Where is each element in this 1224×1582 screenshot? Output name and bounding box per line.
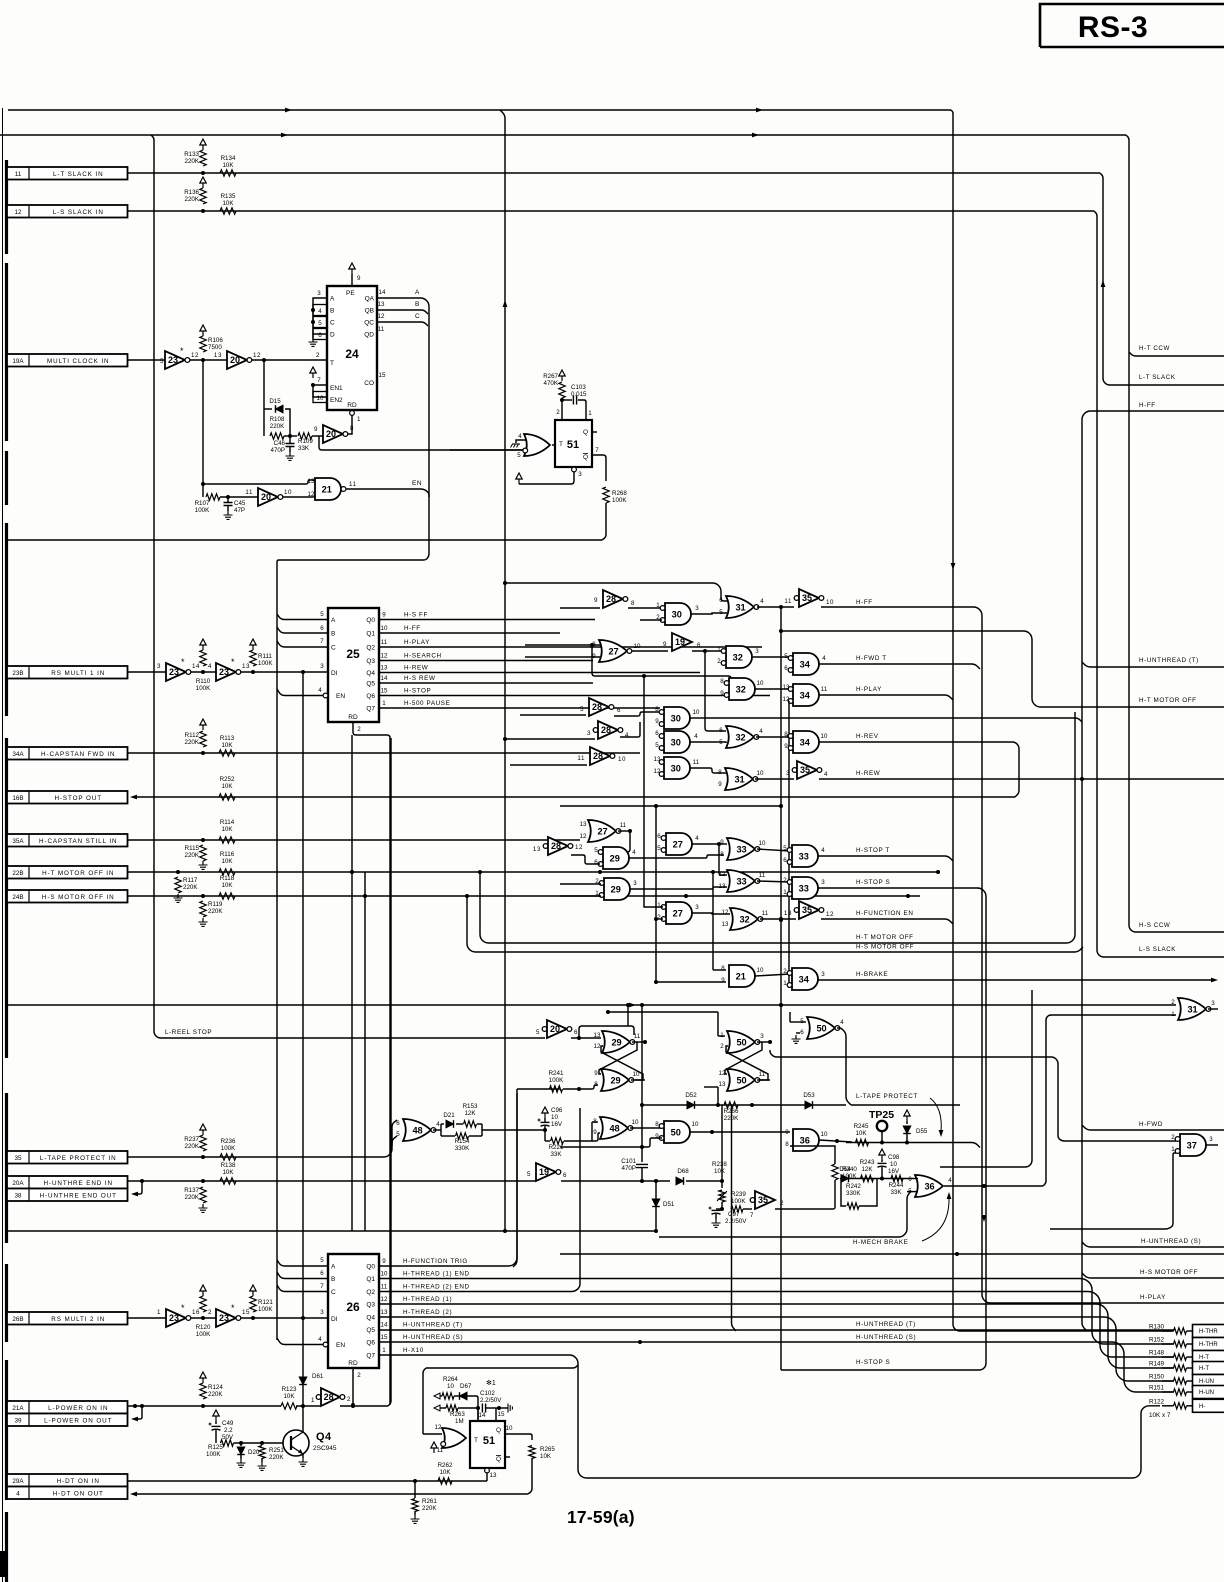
svg-text:R117: R117 (183, 877, 198, 884)
IC25 input curves from bus (277, 564, 328, 1340)
svg-text:H-T: H-T (1199, 1355, 1209, 1361)
svg-text:H-SEARCH: H-SEARCH (404, 653, 442, 660)
label R113 10K (220, 735, 235, 749)
resistor R109 (298, 433, 319, 439)
FF51b pin14 (478, 1408, 486, 1421)
sheet number 17-59(a) (567, 1507, 635, 1527)
bank box R148 (1193, 1351, 1224, 1364)
IC25 output H-REW (379, 665, 700, 673)
bank resistor R130 (1149, 1324, 1193, 1335)
inverter 23b (208, 657, 250, 681)
wire 35d out (775, 1188, 835, 1209)
svg-text:4: 4 (318, 1336, 322, 1343)
resistor R240 (790, 1146, 838, 1188)
curve arrow L-TAPE (930, 1098, 943, 1137)
wire 30a in2 (640, 619, 662, 621)
inverter 20c (536, 1020, 578, 1038)
svg-text:H-UN: H-UN (1199, 1390, 1214, 1396)
svg-text:11: 11 (381, 1284, 388, 1291)
svg-text:4: 4 (208, 663, 212, 670)
label R119 220K (208, 901, 223, 915)
label R123 10K (282, 1386, 297, 1400)
svg-text:14: 14 (379, 289, 386, 296)
svg-text:7500: 7500 (208, 344, 222, 351)
resistor R119 (199, 901, 208, 926)
svg-text:H-FF: H-FF (404, 625, 421, 632)
wire H-FWD T out (819, 655, 980, 669)
connector pin 22B H-T MOTOR OFF IN (7, 866, 128, 879)
IC26 pin label 14 (381, 1322, 463, 1329)
wire H-REV out (819, 733, 1019, 797)
label R242 330K (846, 1183, 861, 1197)
wire 20c out to 21 (283, 492, 315, 497)
wire L-TAPE PROTECT IN (128, 1136, 398, 1159)
wire 36b out (944, 1177, 1043, 1188)
connector pin 26B RS MULTI 2 IN (7, 1312, 128, 1325)
transistor Q4 (283, 1406, 309, 1466)
svg-text:3: 3 (1211, 1000, 1215, 1007)
svg-text:Q7: Q7 (366, 1353, 375, 1360)
svg-text:✻1: ✻1 (486, 1379, 496, 1387)
margin bar segment (5, 523, 8, 716)
svg-text:R106: R106 (208, 337, 223, 344)
svg-text:100K: 100K (196, 685, 211, 692)
inverter 20 (RD driver) (314, 425, 354, 443)
NAND 30b (655, 706, 690, 729)
svg-text:Q0: Q0 (366, 617, 375, 624)
wire EN from 21 (341, 480, 429, 497)
svg-text:220K: 220K (185, 196, 200, 203)
FF51b Q out (505, 1425, 532, 1440)
svg-text:H-UNTHREAD (T): H-UNTHREAD (T) (1139, 657, 1199, 664)
C101 plates (636, 1164, 648, 1183)
connector pin 39 L-POWER ON OUT (7, 1414, 128, 1427)
resistor R116 (219, 869, 235, 875)
label R120 100K (196, 1324, 211, 1338)
svg-text:4: 4 (436, 1121, 440, 1128)
svg-text:*: * (181, 1303, 185, 1313)
svg-text:12: 12 (719, 871, 726, 878)
svg-text:5: 5 (594, 847, 598, 854)
IC25 output H-500 PAUSE (379, 700, 660, 708)
svg-text:8: 8 (721, 965, 725, 972)
svg-text:H-S REW: H-S REW (404, 675, 435, 682)
resistor R120 (200, 1285, 206, 1312)
svg-text:R114: R114 (220, 819, 235, 826)
svg-text:R149: R149 (1149, 1361, 1165, 1368)
svg-text:31: 31 (735, 602, 745, 612)
svg-text:2: 2 (657, 914, 661, 921)
svg-text:220K: 220K (208, 1391, 223, 1398)
svg-text:EN1: EN1 (330, 385, 343, 392)
svg-text:6: 6 (655, 730, 659, 737)
IC24 QA wire A (277, 289, 429, 564)
svg-text:H-THREAD (2): H-THREAD (2) (403, 1309, 452, 1316)
svg-text:11: 11 (634, 1033, 641, 1040)
svg-text:R237: R237 (184, 1136, 199, 1143)
svg-text:5: 5 (783, 845, 787, 852)
NOR 50b (720, 1031, 760, 1053)
svg-text:R238: R238 (712, 1161, 727, 1168)
wire 29a out (629, 849, 724, 858)
NOR 29c (594, 1031, 635, 1053)
connector pin 19A MULTI CLOCK IN (7, 354, 128, 367)
svg-text:12: 12 (381, 653, 388, 660)
label R133 220K (184, 151, 200, 165)
svg-text:R107: R107 (195, 500, 210, 507)
svg-text:R116: R116 (220, 851, 235, 858)
label R245 10K (854, 1123, 869, 1137)
wire 28b out (614, 712, 662, 716)
IC24 pin14 label (378, 289, 386, 379)
resistor R112 (200, 719, 206, 747)
svg-text:EN2: EN2 (330, 397, 343, 404)
margin bar segment (5, 1512, 8, 1582)
wire 37 in1 (1050, 1153, 1176, 1229)
svg-text:11: 11 (759, 872, 766, 879)
svg-text:H-T: H-T (1199, 1366, 1209, 1372)
svg-text:5: 5 (719, 739, 723, 746)
svg-text:EN: EN (336, 1342, 345, 1349)
IC24 QC wire C (377, 313, 428, 326)
svg-text:9: 9 (357, 275, 361, 282)
svg-text:4: 4 (625, 732, 629, 739)
IC25 EN bubble (318, 687, 328, 698)
margin bar segment (5, 451, 8, 505)
svg-text:R123: R123 (282, 1386, 297, 1393)
svg-text:3: 3 (587, 730, 591, 737)
wire R123 to 28f (296, 1404, 320, 1408)
resistor R221 (545, 1133, 600, 1144)
svg-text:DI: DI (331, 1316, 338, 1323)
svg-text:2: 2 (556, 409, 560, 416)
resistor R263 (440, 1405, 480, 1411)
svg-text:D68: D68 (677, 1168, 689, 1175)
wire L-T SLACK IN (128, 171, 1101, 175)
svg-text:33: 33 (799, 883, 809, 893)
svg-text:B: B (415, 301, 420, 308)
svg-text:C46: C46 (274, 440, 286, 447)
svg-text:3: 3 (633, 880, 637, 887)
svg-text:32: 32 (735, 732, 745, 742)
FF51b pin15 (496, 1408, 505, 1421)
svg-text:H-CAPSTAN STILL IN: H-CAPSTAN STILL IN (39, 838, 117, 845)
svg-text:9: 9 (784, 743, 788, 750)
svg-text:11: 11 (784, 598, 792, 605)
wire 37 out (1206, 1136, 1218, 1145)
NOR 33a (720, 838, 760, 860)
wire latch feedback 29 (579, 1026, 634, 1038)
IC 26 decoder (328, 1254, 379, 1368)
resistor R106 (200, 325, 206, 352)
label H-BRAKE (856, 971, 888, 978)
svg-text:8: 8 (720, 678, 724, 685)
svg-text:Q7: Q7 (366, 706, 375, 713)
connector pin 16B H-STOP OUT (7, 791, 128, 804)
wire H-S MOTOR OFF line (465, 894, 1083, 952)
svg-text:5: 5 (527, 1171, 531, 1178)
IC26 pin label 13 (381, 1309, 453, 1316)
svg-text:38: 38 (14, 1193, 22, 1200)
svg-text:Q6: Q6 (366, 1340, 375, 1347)
NOR 48a (396, 1119, 436, 1141)
svg-text:10K: 10K (222, 200, 234, 207)
IC26 Q2 line (379, 1108, 580, 1292)
svg-text:Q: Q (583, 454, 588, 461)
svg-text:R110: R110 (196, 678, 211, 685)
wire 50d out (837, 1019, 851, 1105)
svg-text:D: D (330, 332, 335, 339)
inverter 23c (157, 1303, 200, 1327)
svg-text:5: 5 (784, 653, 788, 660)
wire x365 vertical (364, 872, 366, 1231)
svg-text:12: 12 (381, 1296, 388, 1303)
label H-PLAY (856, 686, 882, 693)
svg-text:10: 10 (759, 840, 766, 847)
svg-text:31: 31 (1187, 1004, 1197, 1014)
svg-text:220K: 220K (270, 423, 285, 430)
wire R241 left (550, 1088, 560, 1090)
svg-text:R262: R262 (438, 1462, 453, 1469)
svg-text:T: T (474, 1437, 478, 1444)
svg-text:12: 12 (654, 768, 661, 775)
svg-text:R138: R138 (221, 1162, 236, 1169)
bank resistor R151 (1149, 1385, 1193, 1396)
label H-PLAY rail (1140, 1294, 1166, 1301)
svg-text:4: 4 (759, 728, 763, 735)
svg-text:Q3: Q3 (366, 658, 375, 665)
svg-text:L-S SLACK IN: L-S SLACK IN (53, 209, 104, 216)
svg-text:R265: R265 (540, 1446, 555, 1453)
svg-text:11: 11 (381, 639, 388, 646)
svg-text:H-FWD T: H-FWD T (856, 655, 887, 662)
svg-text:7: 7 (750, 1212, 754, 1219)
svg-text:10: 10 (632, 1119, 639, 1126)
wire 50d in5 (790, 1012, 806, 1022)
svg-text:50: 50 (736, 1037, 746, 1047)
resistor R111 (250, 639, 256, 666)
svg-text:10K x 7: 10K x 7 (1149, 1412, 1171, 1419)
svg-text:10: 10 (284, 489, 292, 496)
resistor R113 (219, 750, 235, 756)
svg-text:Q2: Q2 (366, 1289, 375, 1296)
svg-text:10: 10 (692, 1121, 699, 1128)
svg-text:2: 2 (717, 658, 721, 665)
diode D61 (299, 1318, 324, 1406)
svg-text:H-THR: H-THR (1199, 1329, 1218, 1335)
svg-text:RD: RD (348, 714, 358, 721)
svg-text:H-DT ON IN: H-DT ON IN (57, 1478, 100, 1485)
NOR 27b (580, 820, 621, 842)
svg-text:25: 25 (346, 647, 360, 661)
svg-text:RD: RD (347, 402, 357, 409)
margin bar segment (5, 1264, 8, 1342)
svg-text:Q4: Q4 (366, 1315, 375, 1322)
svg-text:29: 29 (610, 853, 620, 863)
label R109 33K (298, 438, 313, 452)
svg-text:220K: 220K (185, 1194, 200, 1201)
svg-text:R113: R113 (220, 735, 235, 742)
svg-text:C101: C101 (621, 1158, 636, 1165)
label R265 10K (540, 1446, 555, 1460)
svg-text:PE: PE (346, 290, 355, 297)
wire 29ab inputs (560, 884, 601, 896)
wire 28e to 29a (571, 855, 600, 864)
resistor R264 (440, 1393, 454, 1399)
wire branch x154 from rail2 (151, 135, 168, 1038)
wire branch x505 from rail1 (500, 110, 507, 1233)
svg-text:1: 1 (783, 889, 787, 896)
bank box R150 (1193, 1375, 1224, 1388)
label star1 (486, 1379, 496, 1387)
label R121 100K (258, 1299, 273, 1313)
IC25 output H-STOP (379, 688, 770, 696)
svg-text:9: 9 (721, 977, 725, 984)
wire to C96 node (482, 1128, 547, 1132)
svg-text:2: 2 (316, 352, 320, 359)
inverter 28e (533, 837, 583, 855)
label R238 10K (712, 1161, 727, 1175)
svg-text:13: 13 (308, 478, 315, 485)
diode D53 (803, 1092, 815, 1109)
wire 23a-23b (191, 670, 216, 674)
wire 38 loop (131, 1181, 142, 1196)
inverter 28f (311, 1388, 351, 1406)
svg-text:0.015: 0.015 (571, 391, 587, 398)
svg-text:2.2: 2.2 (224, 1427, 233, 1434)
svg-text:4: 4 (318, 308, 322, 315)
NAND 30d (654, 756, 690, 779)
wire D52 row (640, 1103, 846, 1107)
svg-text:Q2: Q2 (366, 645, 375, 652)
svg-text:RS MULTI 2 IN: RS MULTI 2 IN (51, 1316, 105, 1323)
IC26 pin label 9 (382, 1258, 468, 1265)
svg-text:A: A (330, 296, 335, 303)
resistor R133 (200, 139, 206, 166)
svg-text:39: 39 (14, 1418, 22, 1425)
svg-text:13: 13 (719, 1081, 726, 1088)
svg-text:R151: R151 (1149, 1385, 1165, 1392)
svg-text:D21: D21 (443, 1112, 455, 1119)
svg-text:13: 13 (594, 1032, 601, 1039)
wire 30a out (691, 605, 727, 614)
label H-S MOTOR OFF (856, 944, 914, 951)
connector pin 23B RS MULTI 1 IN (7, 666, 128, 679)
svg-text:12: 12 (722, 909, 729, 916)
svg-text:5: 5 (517, 452, 521, 459)
svg-text:2: 2 (208, 1309, 212, 1316)
IC26 Q0 line (379, 1093, 517, 1266)
svg-text:33K: 33K (550, 1151, 562, 1158)
wire 33a out (757, 840, 790, 851)
svg-text:14: 14 (381, 1322, 388, 1329)
wire H-REW out (819, 777, 1224, 781)
svg-text:26: 26 (346, 1300, 360, 1314)
svg-text:L-TAPE PROTECT IN: L-TAPE PROTECT IN (40, 1155, 117, 1162)
svg-text:36: 36 (800, 1135, 810, 1145)
svg-text:21: 21 (322, 484, 332, 494)
svg-text:20A: 20A (12, 1180, 24, 1187)
svg-text:H-UNTHRE END IN: H-UNTHRE END IN (44, 1180, 113, 1187)
svg-text:2: 2 (357, 726, 361, 733)
wire 23d to DI26 (241, 1309, 328, 1320)
svg-text:TP25: TP25 (869, 1109, 894, 1121)
wire 50e out (690, 1121, 790, 1134)
svg-text:B: B (331, 631, 335, 638)
wire multi clock in (128, 359, 166, 361)
label H-FF rail (1139, 402, 1156, 409)
NAND 21 (308, 478, 341, 500)
svg-text:H-PLAY: H-PLAY (856, 686, 882, 693)
svg-text:12: 12 (594, 1043, 601, 1050)
wire x517 vertical (513, 1089, 517, 1267)
svg-text:2: 2 (783, 877, 787, 884)
capacitor C96 (538, 1107, 563, 1128)
label H-FF (856, 599, 873, 606)
wire 27a in9 (525, 656, 600, 658)
wire 27c branch (719, 844, 727, 875)
svg-text:33: 33 (736, 876, 746, 886)
svg-text:13: 13 (533, 846, 541, 853)
capacitor C98 (878, 1149, 900, 1179)
NAND 30c (655, 730, 690, 753)
svg-text:28: 28 (324, 1392, 334, 1402)
wire 29b out (630, 880, 727, 889)
svg-text:32: 32 (739, 914, 749, 924)
wire R241 row (517, 1085, 598, 1091)
resistor R110 (200, 639, 206, 666)
IC25 output H-FF (379, 625, 560, 633)
svg-text:10: 10 (447, 1383, 454, 1390)
label R267 470K (543, 373, 559, 387)
connector pin 35 L-TAPE PROTECT IN (7, 1151, 128, 1164)
NOR 31b (718, 768, 758, 790)
svg-text:H-UNTHREAD (T): H-UNTHREAD (T) (403, 1322, 463, 1329)
svg-text:R133: R133 (184, 151, 199, 158)
resistor into 35d (731, 1206, 752, 1212)
svg-text:H-T MOTOR OFF: H-T MOTOR OFF (1139, 697, 1197, 704)
svg-text:6: 6 (320, 1270, 324, 1277)
inverter 20 (clock buf) (214, 351, 261, 369)
svg-text:5: 5 (580, 706, 584, 713)
wire 36b up to 31c (1043, 1015, 1176, 1186)
svg-text:51: 51 (483, 1435, 495, 1447)
svg-text:C103: C103 (571, 384, 586, 391)
svg-text:21A: 21A (12, 1405, 24, 1412)
IC26 Q2 line right (580, 1292, 1174, 1358)
svg-text:33: 33 (799, 851, 809, 861)
wire 28a in (560, 607, 600, 609)
svg-text:B: B (330, 308, 334, 315)
IC26 pin label 10 (381, 1271, 470, 1278)
svg-text:51: 51 (567, 439, 579, 451)
wire H-FUNCTION EN out (821, 919, 953, 924)
IC26 Q4 line (379, 1317, 1174, 1381)
svg-text:15: 15 (379, 372, 386, 379)
svg-text:13: 13 (722, 921, 729, 928)
svg-text:7: 7 (320, 638, 324, 645)
label H-T CCW (1139, 345, 1170, 352)
svg-text:220K: 220K (208, 908, 223, 915)
svg-text:H-DT ON OUT: H-DT ON OUT (53, 1491, 104, 1498)
svg-text:6: 6 (318, 332, 322, 339)
wire H-T CCW peel (1129, 352, 1224, 356)
svg-text:Q: Q (496, 1427, 501, 1434)
svg-text:8: 8 (784, 731, 788, 738)
wire H-CAPSTAN STILL IN (128, 838, 581, 842)
label H-T MOTOR OFF (856, 934, 914, 941)
svg-text:CO: CO (364, 380, 374, 387)
